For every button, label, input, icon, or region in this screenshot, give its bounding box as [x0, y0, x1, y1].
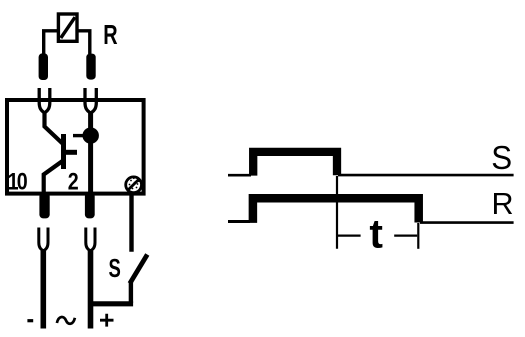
junction dot	[83, 127, 99, 143]
waveform R baseline left	[228, 220, 250, 223]
svg-text:10: 10	[8, 168, 28, 195]
svg-text:2: 2	[68, 168, 79, 195]
transistor bar	[61, 134, 66, 169]
pin top left (blade)	[39, 53, 48, 80]
socket bottom right	[86, 228, 95, 252]
t extension line left	[336, 176, 338, 249]
wire terminal 2	[88, 111, 93, 193]
screw terminal	[126, 177, 142, 193]
wire switch to plus	[93, 301, 134, 306]
switch lower contact	[129, 282, 133, 303]
waveform S baseline left	[228, 174, 251, 177]
label ~	[57, 317, 75, 324]
wire plus terminal	[88, 251, 94, 329]
waveform R baseline right	[420, 221, 514, 224]
svg-text:R: R	[492, 187, 514, 221]
label minus	[27, 319, 33, 322]
switch S lever	[130, 255, 148, 284]
svg-text:S: S	[491, 139, 512, 176]
transistor stub	[64, 150, 78, 155]
svg-text:t: t	[369, 211, 383, 257]
stub from dot	[73, 134, 85, 137]
svg-text:R: R	[103, 20, 118, 51]
socket top right	[85, 88, 96, 113]
socket top left	[39, 88, 50, 113]
relay coil R	[58, 14, 77, 41]
wire screw to switch	[129, 193, 133, 252]
socket bottom left	[39, 228, 48, 252]
pin bottom left (blade)	[39, 193, 49, 219]
relay unit box	[7, 100, 144, 194]
wire minus terminal	[40, 251, 46, 329]
svg-text:S: S	[109, 254, 121, 283]
pin bottom right (blade)	[85, 193, 95, 219]
pin top right (blade)	[86, 54, 95, 80]
waveform R pulse	[253, 198, 419, 223]
t dimension line	[337, 235, 418, 237]
wire base (socket to transistor)	[45, 111, 63, 144]
wire coil right	[78, 31, 90, 54]
t extension line right	[417, 223, 419, 249]
label plus	[100, 314, 114, 327]
wire coil left	[44, 31, 58, 54]
wire emitter (bar to pin 10)	[44, 161, 63, 193]
waveform S baseline right	[338, 174, 514, 177]
waveform S pulse	[253, 152, 337, 176]
